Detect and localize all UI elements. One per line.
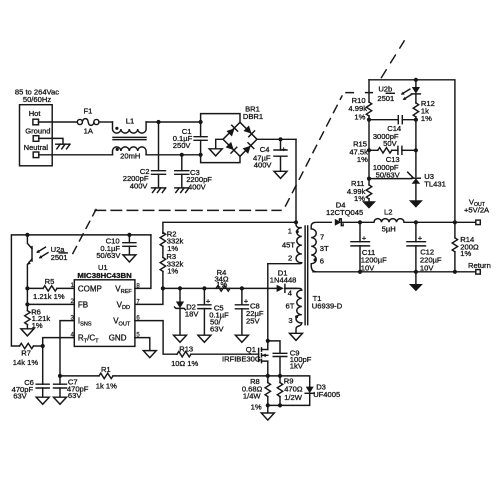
capacitor C5 0.1uF 50/63V [198,288,229,335]
resistor R10 4.99k 1% [348,80,371,122]
ground (R8) [261,413,274,420]
wire Vout line to terminal [416,221,476,223]
svg-text:MIC38HC43BN: MIC38HC43BN [77,271,132,280]
wire U2a emitter to R6 and FB [27,288,74,304]
svg-text:6T: 6T [286,301,295,310]
node R7/C6/RT [41,344,45,348]
input connector box [15,88,59,166]
ground (R11) [362,201,376,208]
svg-text:10V: 10V [420,263,434,272]
bridge rectifier BR1 DBR1 [223,105,263,157]
svg-text:R7: R7 [21,348,31,357]
node R10/C14 [367,118,371,122]
capacitor C8 22uF 25V [235,288,263,335]
ground (U1 GND) [143,351,156,358]
wire hot rail to bridge [201,114,240,123]
label Vout [464,198,490,215]
svg-text:IRFIBE30G: IRFIBE30G [222,355,261,364]
node R6/FB [25,302,29,306]
node ref divider [367,177,371,181]
diode D3 UF4005 [268,383,340,406]
svg-text:R1: R1 [101,365,111,374]
wire L1 to C1 (hot) [146,121,201,123]
svg-text:1%: 1% [216,280,227,289]
ground (R6) [21,329,34,336]
capacitor C12 220uF 10V [407,222,442,272]
svg-text:U6939-D: U6939-D [312,301,343,310]
svg-text:+: + [206,296,211,305]
wire fuse to L1 [99,121,113,123]
svg-text:1kV: 1kV [290,362,304,371]
resistor R5 1.21k 1% [27,277,74,301]
svg-text:1%: 1% [460,249,471,258]
ground (C5) [198,335,211,342]
op-amp U1 MIC38HC43BN controller box [71,263,141,347]
svg-text:1: 1 [288,226,292,235]
optocoupler U2b 2501 LED [377,80,420,103]
svg-text:FB: FB [78,300,88,309]
ground (C8) [235,335,248,342]
svg-text:20mH: 20mH [120,152,140,161]
node R15 row left [367,148,371,152]
node R14 bottom [453,270,457,274]
svg-text:Q1: Q1 [246,345,256,354]
svg-text:1.21k 1%: 1.21k 1% [33,292,65,301]
svg-text:10V: 10V [361,263,375,272]
svg-text:DBR1: DBR1 [243,112,263,121]
wire R8 to ground [267,405,269,413]
svg-text:2: 2 [288,254,292,263]
optocoupler U2a 2501 phototransistor [27,235,67,289]
capacitor C9 100pF 1kV [268,341,312,376]
wire HV bus down to transformer [295,139,297,222]
svg-text:18V: 18V [185,310,199,319]
ground (secondary rail) [409,284,423,291]
svg-text:63V: 63V [210,324,224,333]
resistor R4 34ohm 1% [214,268,230,291]
svg-text:TL431: TL431 [424,180,446,189]
svg-text:2501: 2501 [51,253,68,262]
svg-text:UF4005: UF4005 [313,390,340,399]
capacitor C4 47uF 400V [253,139,287,171]
svg-text:400V: 400V [188,182,207,191]
transistor Q1 IRFIBE30G [222,264,268,376]
svg-text:10Ω 1%: 10Ω 1% [171,359,198,368]
svg-text:F1: F1 [83,106,92,115]
ground (C6) [36,397,49,404]
svg-text:L2: L2 [384,208,392,217]
wire GND pin5 to ground [135,338,150,351]
svg-text:2501: 2501 [377,94,394,103]
svg-text:25V: 25V [246,317,260,326]
node C11 bottom [358,270,362,274]
isolation boundary dashed [73,41,404,254]
chassis ground (C2) [152,188,166,193]
svg-text:1k 1%: 1k 1% [96,382,117,391]
resistor R12 1k 1% [413,99,435,123]
svg-text:1N4448: 1N4448 [270,275,297,284]
ground (D2) [174,335,187,342]
ground (bridge) [209,149,222,156]
terminal Return [476,270,481,275]
resistor R1 1k 1% [60,365,268,391]
svg-text:1%: 1% [354,113,365,122]
svg-text:Hot: Hot [29,109,42,118]
wire HV bus to R2 [163,222,296,233]
capacitor C2 2200pF 400V [123,122,166,190]
svg-text:3: 3 [288,316,292,325]
node C7/R1 [58,374,62,378]
svg-text:+: + [418,233,423,242]
terminal Vout [476,220,481,225]
svg-text:50/60Hz: 50/60Hz [23,95,51,104]
wire R3 to VDD pin 7 [135,288,163,304]
svg-text:1/4W: 1/4W [243,391,262,400]
capacitor C1 0.1uF 250V [173,122,207,155]
wire VDD row [163,287,277,289]
svg-text:400V: 400V [254,160,273,169]
resistor R11 4.99k 1% [347,150,372,203]
node C11 top [358,220,362,224]
svg-text:14k 1%: 14k 1% [13,358,39,367]
wire bridge negative to ground [216,139,223,149]
wire VOUT pin6 to R13 [135,321,177,355]
resistor R9 470ohm 1/2W [277,376,303,406]
ground (C7) [54,397,67,404]
node C1 bottom [199,153,203,157]
svg-text:1A: 1A [84,126,94,135]
capacitor C10 0.1uF 50/63V [96,235,136,260]
svg-text:Neutral: Neutral [24,143,49,152]
node LED top [414,78,418,82]
capacitor C13 1000pF 50/63V [373,146,416,179]
node R8 bottom [266,403,270,407]
svg-text:1/2W: 1/2W [284,393,303,402]
svg-text:12CTQ045: 12CTQ045 [326,208,363,217]
wire feedback top rail [369,80,455,223]
wire VREF pin8 up to rail [135,235,151,289]
svg-text:Ground: Ground [25,127,50,136]
fuse F1 1A [77,106,99,135]
resistor R13 10ohm 1% [171,345,259,368]
ground (C4) [274,171,287,178]
chassis ground (input) [56,144,70,149]
ground (C10) [123,255,136,262]
ground (T1 pin3) [290,333,303,340]
resistor R15 47.5k 1% [349,120,398,164]
node C12 top [414,220,418,224]
node hot/C2 [156,120,160,124]
wire secondary return rail [313,271,476,273]
node R12/C14 [414,118,418,122]
node Q1 drain [266,339,270,343]
node C8 [240,286,244,290]
resistor R3 332k 1% [160,252,183,288]
svg-text:50V: 50V [383,139,397,148]
diode D4 12CTQ045 schottky [326,200,363,225]
node neutral/C3 [180,153,184,157]
node R5/U2a emitter [25,286,29,290]
svg-text:5µH: 5µH [382,225,396,234]
svg-text:L1: L1 [126,117,134,126]
node D2 [178,286,182,290]
svg-text:3T: 3T [320,244,329,253]
chassis ground (C3) [175,188,189,193]
svg-text:GND: GND [109,334,127,343]
node R9 bottom [278,403,282,407]
svg-text:1%: 1% [357,155,368,164]
node VDD/R3 [161,286,165,290]
wire neutral to C1 [39,154,201,156]
capacitor C3 2200pF 400V [175,155,213,192]
svg-text:1%: 1% [251,402,262,411]
capacitor C14 3000pF 50V [369,116,416,148]
svg-text:+: + [362,233,367,242]
svg-text:+: + [244,296,249,305]
svg-text:1%: 1% [167,267,178,276]
svg-text:Return: Return [468,261,491,270]
node Q1 source [266,374,270,378]
node C12 bottom / ground [414,270,418,274]
capacitor C11 1200uF 10V [351,222,387,272]
svg-text:50/63V: 50/63V [96,251,121,260]
svg-text:+: + [282,145,287,154]
svg-text:U2b: U2b [378,85,392,94]
terminal Ground [33,136,39,142]
node transformer primary top [294,220,298,224]
svg-text:63V: 63V [13,392,27,401]
wire ground terminal to chassis [39,138,63,144]
node U2a collector [25,233,29,237]
wire R12 to TL431 [415,120,417,177]
resistor R14 200ohm 1% [452,222,479,271]
svg-text:6: 6 [320,257,324,266]
wire neutral rail to bridge [201,155,240,163]
wire hot to fuse [39,121,78,123]
svg-text:R5: R5 [45,277,55,286]
wire node to RT/CT pin4 [43,338,75,346]
svg-text:250V: 250V [173,141,192,150]
node C4 [278,137,282,141]
capacitor C6 470pF 63V [12,346,50,401]
wire VREF rail [11,235,151,346]
diode D1 1N4448 [270,268,297,292]
node Vout/R14 [453,220,457,224]
svg-text:+5V/2A: +5V/2A [464,206,490,215]
transformer T1 U6939-D [268,222,343,333]
inductor L2 5uH [360,208,416,234]
wire ISNS pin3 to C7 [60,321,74,376]
terminal Neutral [33,152,39,158]
wire sense line to D3 [268,376,310,387]
svg-text:7: 7 [320,232,324,241]
wire secondary ground stub [415,272,417,284]
node C5 [202,286,206,290]
resistor R7 14k 1% [13,343,43,367]
shunt regulator U3 TL431 [369,172,446,201]
resistor R6 1.21k 1% [25,304,51,329]
wire bridge positive rail [257,138,296,140]
ground (U3) [409,200,423,207]
node C9/R9 [278,374,282,378]
node C10 [127,233,131,237]
svg-text:COMP: COMP [78,284,102,293]
svg-text:R13: R13 [179,345,193,354]
resistor R8 0.68ohm 1/4W 1% [242,376,271,412]
node C1 top [199,120,203,124]
svg-text:400V: 400V [130,181,149,190]
node C13 right [414,148,418,152]
svg-text:45T: 45T [282,241,295,250]
terminal Hot [33,119,39,125]
svg-text:4: 4 [288,288,292,297]
zener D2 18V [175,288,200,335]
svg-text:1%: 1% [421,114,432,123]
capacitor C7 470pF 63V [54,376,89,400]
svg-text:63V: 63V [68,391,82,400]
inductor L1 20mH common-mode choke [113,117,147,161]
resistor R2 332k 1% [160,229,183,257]
